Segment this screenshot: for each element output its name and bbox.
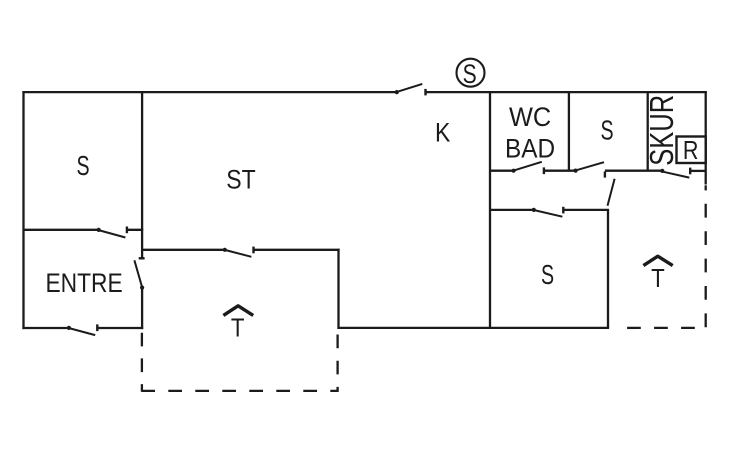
door S1 bottom [97,227,127,238]
door s3 top [532,207,564,217]
wall y170 right segment [691,170,706,172]
wall top outer right [426,91,707,93]
wall left outer [22,91,24,329]
wall bottom-right dashed [627,327,700,329]
svg-text:WC: WC [509,101,551,132]
symbol circled S [457,59,485,90]
wall entre right lower [141,288,143,330]
wall wcbad-s divider x569 [568,92,570,171]
wall bottom entre [22,327,68,329]
svg-text:SKUR: SKUR [644,95,681,166]
terrace1 dashed right [336,335,338,392]
door wcbad [511,162,543,174]
svg-text:S: S [600,115,613,146]
wall s3 top left part [490,209,534,211]
door skur bottom [660,168,690,178]
svg-text:ENTRE: ENTRE [45,268,122,298]
wall top outer left [22,91,396,93]
door s2 bottom [574,162,605,177]
svg-text:S: S [541,259,554,290]
door top K: leaf ticks [395,84,426,96]
wall terrace top left part [142,249,224,251]
wall y170 mid segment [544,170,576,172]
wall s3 top right part [563,209,609,211]
wall terrace right solid [337,249,339,329]
wall bottom entre right part [97,327,143,329]
wall y170 skur segment [605,170,662,172]
box R [677,136,706,165]
svg-text:BAD: BAD [505,134,555,163]
door entre bottom [67,324,98,335]
svg-text:K: K [435,118,451,148]
svg-text:T: T [231,314,245,343]
wall y170 wcbad bottom [490,170,513,172]
wall S1 bottom left part [24,229,98,231]
svg-text:T: T [651,264,665,293]
wall right outer dashed [705,185,707,190]
door terrace1 top [223,247,254,257]
wall S1 bottom right part [127,229,143,231]
svg-text:S: S [463,59,477,89]
wall terrace top right part [254,249,340,251]
wall bottom mid [337,327,609,329]
door entre right [134,258,144,289]
symbol terrace1 chevron [223,306,253,316]
wall s3 right x608 [607,210,609,328]
wall wcbad left x490 [489,92,491,328]
svg-text:ST: ST [226,165,255,195]
terrace1 dashed bottom [141,390,338,392]
svg-text:S: S [76,151,89,182]
door passage right [608,179,615,206]
symbol terrace2 chevron [643,256,672,265]
svg-text:R: R [683,136,699,165]
wall s-skur divider x648 [647,92,649,171]
wall divider ST x142 [141,92,143,258]
wall right outer solid [705,91,707,185]
terrace1 dashed left [141,333,143,392]
